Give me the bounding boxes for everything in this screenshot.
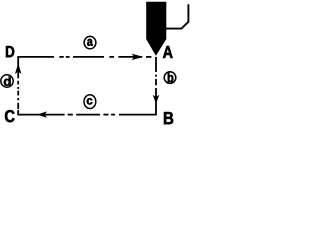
node C label	[5, 110, 15, 122]
arrowhead b (points down at B)	[153, 96, 158, 104]
node B label	[164, 112, 173, 124]
arrowhead d (points up at D)	[16, 64, 21, 73]
circled label a	[84, 36, 96, 48]
wire segment c: bottom chain line B to C	[18, 114, 156, 116]
circled label b	[164, 72, 176, 84]
node D label	[6, 46, 14, 57]
arrowhead a (points right at A)	[132, 54, 142, 59]
node A label	[163, 46, 173, 58]
arrowhead c (points left at C)	[38, 112, 46, 117]
wire segment d: left chain line C to D	[17, 56, 19, 115]
circled label d	[1, 75, 13, 87]
pen holder hook	[166, 4, 189, 28]
wire segment b: right chain line A to B	[155, 57, 157, 116]
wire segment a: top chain line D to A	[19, 56, 151, 58]
plotter pen body	[147, 2, 167, 55]
circled label c	[84, 95, 96, 109]
